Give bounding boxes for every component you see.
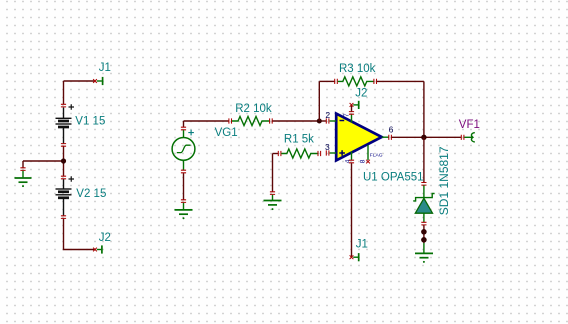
junction C <box>421 135 426 140</box>
svg-text:VG1: VG1 <box>215 127 238 139</box>
svg-text:J2: J2 <box>355 88 367 100</box>
resistor R1 <box>273 134 321 158</box>
wire VG1 to R2 <box>184 120 229 122</box>
svg-text:3: 3 <box>325 142 330 152</box>
svg-text:VF1: VF1 <box>459 119 480 131</box>
wire R2 to junction <box>273 120 320 122</box>
wire riser to R3 <box>319 80 335 82</box>
wire V- to J1 <box>351 163 353 257</box>
svg-text:J2: J2 <box>99 232 111 244</box>
wire R3 to output column <box>377 80 424 82</box>
junction D <box>421 229 427 235</box>
ground left <box>15 168 32 187</box>
ground diode <box>415 243 433 263</box>
op-amp U1 <box>326 114 423 184</box>
ground R1 <box>264 192 282 210</box>
wire V2 to J2 <box>64 219 96 250</box>
wire junction to diode <box>423 137 425 182</box>
svg-text:6: 6 <box>389 125 394 135</box>
diode SD1 <box>413 146 451 225</box>
wire R1 to ground <box>272 154 274 193</box>
pin V- ticks <box>349 160 354 163</box>
resistor R2 <box>229 103 272 126</box>
wire junction to ground <box>23 161 64 168</box>
battery V1 <box>56 104 106 146</box>
svg-text:R2 10k: R2 10k <box>235 103 272 115</box>
resistor R3 <box>335 63 377 86</box>
wire J1 top horizontal <box>64 80 96 82</box>
svg-text:V1 15: V1 15 <box>75 115 105 127</box>
wire diode to ground <box>423 225 425 243</box>
wire output column down <box>423 81 425 137</box>
junction E <box>421 237 427 243</box>
wire V+ to J2 <box>351 105 353 111</box>
pin FLAG <box>366 153 383 164</box>
node VF1 <box>459 119 480 142</box>
terminal J1 <box>93 62 111 85</box>
terminal J2 <box>93 232 111 254</box>
svg-text:SD1 1N5817: SD1 1N5817 <box>437 146 451 215</box>
junction A <box>61 158 66 163</box>
pin V+ ticks <box>349 112 354 115</box>
wire VG1 to ground <box>183 173 185 200</box>
svg-text:8: 8 <box>360 159 367 163</box>
generator VG1 <box>172 121 238 173</box>
svg-text:R3 10k: R3 10k <box>339 63 376 75</box>
svg-text:J1: J1 <box>356 239 368 251</box>
svg-text:2: 2 <box>325 110 330 120</box>
svg-text:R1 5k: R1 5k <box>284 134 314 146</box>
terminal J1 bottom <box>350 239 368 262</box>
wire V1 to junction to V2 <box>63 147 65 177</box>
wire feedback riser <box>318 81 320 121</box>
battery V2 <box>56 176 107 218</box>
wire J1 corner to V1 <box>63 81 65 105</box>
wire junction to pin2 <box>319 120 326 122</box>
svg-text:V2 15: V2 15 <box>76 188 106 200</box>
svg-text:FLAG: FLAG <box>370 153 383 159</box>
terminal J2 top <box>350 88 368 109</box>
pin 6 ticks <box>389 135 392 140</box>
junction B <box>317 119 322 124</box>
ground VG1 <box>175 200 193 220</box>
svg-text:J1: J1 <box>99 62 111 74</box>
wire output to VF1 <box>392 136 461 138</box>
svg-text:U1 OPA551: U1 OPA551 <box>363 172 424 184</box>
